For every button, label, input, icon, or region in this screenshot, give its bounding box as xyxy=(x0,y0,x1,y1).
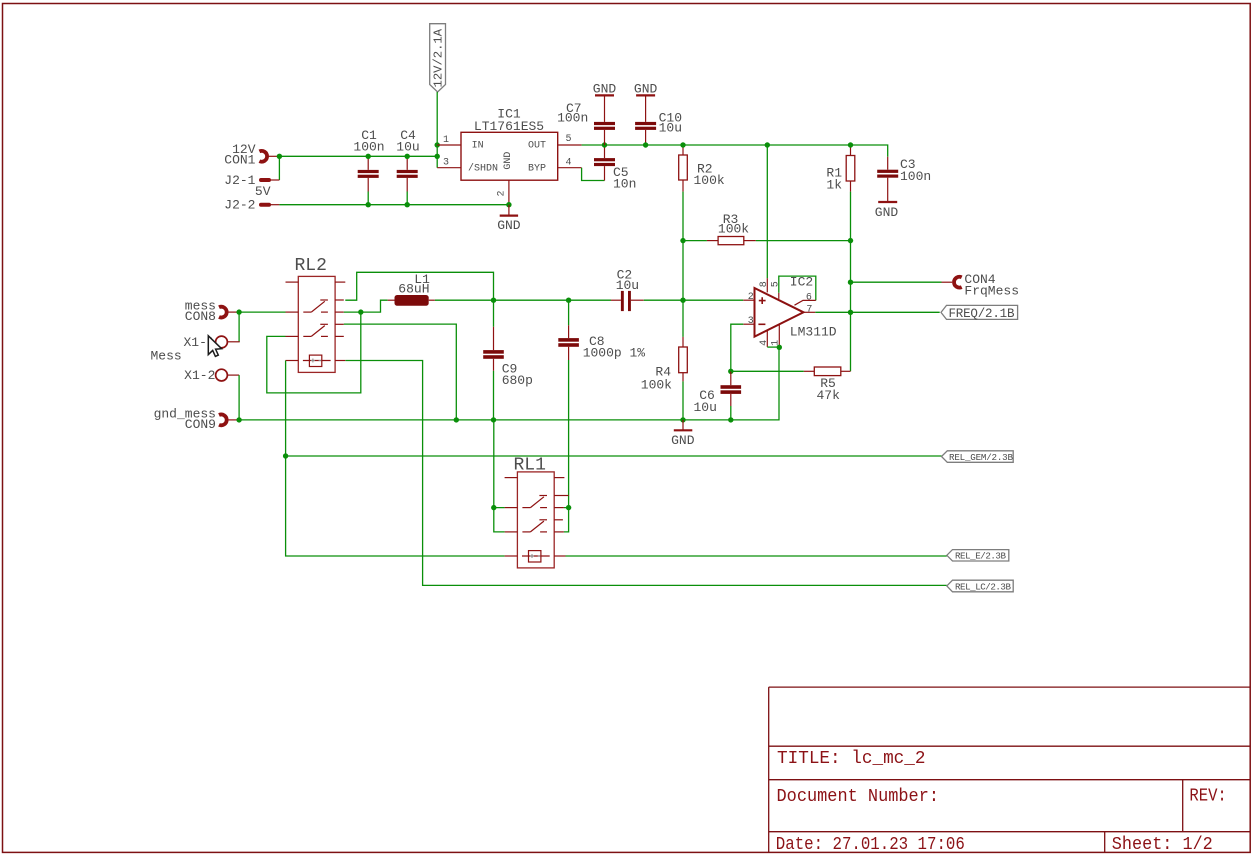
wire gnd_mess net xyxy=(239,347,779,420)
svg-text:RL2: RL2 xyxy=(295,256,327,276)
wire X1-2 down xyxy=(238,375,240,420)
flag REL_LC/2.3B xyxy=(947,580,1013,592)
svg-text:J2-2: J2-2 xyxy=(224,198,255,213)
wire signal main xyxy=(494,299,612,301)
wire R3 node down to signal xyxy=(682,241,684,301)
node CON9 xyxy=(236,417,241,422)
svg-text:5: 5 xyxy=(566,134,572,145)
node IC2 pin1 xyxy=(777,345,782,350)
svg-text:REV:: REV: xyxy=(1189,787,1226,807)
wire RL2 coil to REL_LC xyxy=(345,361,946,586)
svg-text:1000p 1%: 1000p 1% xyxy=(583,346,646,361)
wire to REL_GEM flag xyxy=(286,455,942,457)
ground C3 xyxy=(875,202,899,220)
capacitor C4 xyxy=(396,128,419,205)
svg-text:4: 4 xyxy=(566,157,572,168)
inductor L1 xyxy=(388,272,435,306)
wire to CON4 xyxy=(851,281,942,283)
svg-text:BYP: BYP xyxy=(528,163,546,174)
wire RL1 left pins xyxy=(494,420,505,508)
wire RL2 common to L1 xyxy=(344,300,388,312)
resistor R1 xyxy=(826,145,854,192)
flag FREQ/2.1B xyxy=(941,305,1018,320)
node C4 bottom xyxy=(405,202,410,207)
node 12V-CON1 xyxy=(277,154,282,159)
node C8 top xyxy=(566,298,571,303)
svg-text:4: 4 xyxy=(759,340,770,346)
node C6 bottom xyxy=(728,417,733,422)
svg-text:5V: 5V xyxy=(255,184,271,199)
wire RL1 right pins xyxy=(564,508,569,532)
wire pin4 to C5 xyxy=(582,168,605,181)
wire L1 to node xyxy=(435,299,494,301)
svg-text:3: 3 xyxy=(748,316,754,327)
node V+ branch xyxy=(765,142,770,147)
svg-text:CON8: CON8 xyxy=(185,309,216,324)
svg-text:GND: GND xyxy=(875,205,899,220)
svg-text:X1-2: X1-2 xyxy=(184,368,215,383)
wire CON8 to RL2 xyxy=(239,311,285,313)
node C1 top xyxy=(366,154,371,159)
svg-text:Document Number:: Document Number: xyxy=(777,787,940,807)
node IC1 main junction xyxy=(435,154,440,159)
node RL1 left xyxy=(491,505,496,510)
node C6 top xyxy=(728,369,733,374)
wire R1 down rail xyxy=(850,192,852,372)
svg-text:CON9: CON9 xyxy=(185,417,216,432)
svg-text:FrqMess: FrqMess xyxy=(964,284,1019,299)
pin X1-1 xyxy=(183,335,227,350)
flag REL_GEM/2.3B xyxy=(942,451,1014,463)
svg-text:10u: 10u xyxy=(396,139,419,154)
svg-text:CON1: CON1 xyxy=(224,153,255,168)
capacitor C10 xyxy=(634,82,682,145)
wire R2 to R3 node xyxy=(682,192,684,241)
svg-text:IN: IN xyxy=(472,141,484,152)
wire C2 to comparator xyxy=(644,299,744,301)
svg-text:FREQ/2.1B: FREQ/2.1B xyxy=(949,307,1015,321)
resistor R2 xyxy=(679,145,725,192)
wire RL2 no2 to gnd net xyxy=(344,324,457,420)
wire IC2 output xyxy=(815,311,939,313)
svg-text:5: 5 xyxy=(771,281,782,287)
svg-text:REL_E/2.3B: REL_E/2.3B xyxy=(955,551,1006,562)
svg-text:100n: 100n xyxy=(900,169,931,184)
node output xyxy=(848,310,853,315)
svg-text:2: 2 xyxy=(748,292,754,303)
node signal x683 xyxy=(680,298,685,303)
ground main xyxy=(671,420,695,448)
resistor R3 xyxy=(683,212,851,245)
connector CON1 xyxy=(224,142,277,168)
svg-text:10u: 10u xyxy=(659,120,682,135)
svg-text:REL_LC/2.3B: REL_LC/2.3B xyxy=(955,581,1011,592)
svg-text:3: 3 xyxy=(443,158,449,169)
wire RL2 bypass over L1 xyxy=(345,272,493,300)
node C1 bottom xyxy=(366,202,371,207)
cursor xyxy=(208,336,221,357)
node R3 right xyxy=(848,238,853,243)
capacitor C9 xyxy=(483,300,533,420)
svg-text:TITLE: lc_mc_2: TITLE: lc_mc_2 xyxy=(777,749,926,769)
connector CON9 xyxy=(154,406,237,432)
relay RL1 xyxy=(505,456,569,568)
wire OUT net xyxy=(582,145,888,157)
node gnd net x456 xyxy=(454,417,459,422)
svg-text:Sheet: 1/2: Sheet: 1/2 xyxy=(1112,835,1213,855)
svg-text:J2-1: J2-1 xyxy=(224,173,255,188)
node R4 bottom xyxy=(680,417,685,422)
node REL_GEM branch xyxy=(283,453,288,458)
flag REL_E/2.3B xyxy=(947,550,1009,562)
svg-text:100k: 100k xyxy=(718,222,749,237)
svg-text:10u: 10u xyxy=(616,278,639,293)
supply flag 12V/2.1A xyxy=(430,24,446,92)
node C10 bottom xyxy=(643,142,648,147)
wire REL_GEM net xyxy=(286,361,505,557)
wire supply flag to IC1 input xyxy=(436,92,438,168)
svg-text:47k: 47k xyxy=(817,388,841,403)
svg-text:7: 7 xyxy=(806,304,812,315)
wire RL1 coil to REL_E xyxy=(566,555,947,557)
svg-text:Mess: Mess xyxy=(151,349,182,364)
resistor R4 xyxy=(641,300,688,420)
capacitor C2 xyxy=(611,267,644,311)
node CON8 xyxy=(236,309,241,314)
capacitor C6 xyxy=(693,371,741,420)
node CON4 branch xyxy=(848,280,853,285)
node C5 top xyxy=(602,142,607,147)
capacitor C7 xyxy=(557,82,616,145)
svg-text:100n: 100n xyxy=(557,110,588,125)
node RL2 common xyxy=(358,309,363,314)
connector CON8 xyxy=(185,298,237,324)
node IC1 pin2 gnd xyxy=(506,202,511,207)
node L1 output xyxy=(491,298,496,303)
svg-text:100k: 100k xyxy=(641,378,672,393)
pin J2-1 xyxy=(224,173,279,188)
wire IC2 pin3 net xyxy=(731,324,744,371)
svg-text:1: 1 xyxy=(443,135,449,146)
wire gnd rail J2-2 xyxy=(279,204,509,206)
svg-text:12V/2.1A: 12V/2.1A xyxy=(431,28,445,87)
wire CON8 to X1-1 xyxy=(238,312,240,342)
capacitor C8 xyxy=(558,300,645,508)
svg-text:/SHDN: /SHDN xyxy=(468,162,498,174)
svg-text:8: 8 xyxy=(759,281,770,287)
node IC1 pin1 junction xyxy=(435,142,440,147)
capacitor C3 xyxy=(877,157,931,202)
wire 12V main xyxy=(279,155,437,157)
connector CON4 xyxy=(954,272,1019,298)
svg-text:IC2: IC2 xyxy=(790,274,813,289)
svg-text:10n: 10n xyxy=(613,177,636,192)
wire V+ vertical xyxy=(766,145,768,278)
node R2 top xyxy=(680,142,685,147)
svg-text:GND: GND xyxy=(671,433,695,448)
svg-text:1k: 1k xyxy=(826,177,842,192)
regulator IC1 LT1761ES5 xyxy=(437,106,581,204)
resistor R5 xyxy=(731,367,851,403)
svg-text:REL_GEM/2.3B: REL_GEM/2.3B xyxy=(949,452,1013,463)
svg-text:OUT: OUT xyxy=(528,141,546,152)
pin X1-2 xyxy=(184,368,239,383)
title block xyxy=(769,687,1250,855)
svg-text:GND: GND xyxy=(503,152,514,170)
capacitor C5 xyxy=(594,145,636,192)
node C9 bottom xyxy=(491,417,496,422)
svg-text:680p: 680p xyxy=(502,373,533,388)
node R3 left xyxy=(680,238,685,243)
svg-text:2: 2 xyxy=(497,190,508,196)
node R1 top xyxy=(848,142,853,147)
svg-text:100k: 100k xyxy=(694,173,725,188)
svg-text:LM311D: LM311D xyxy=(790,325,837,340)
wire CON1 to J2-1 xyxy=(278,156,280,180)
relay RL2 xyxy=(286,256,346,373)
svg-text:GND: GND xyxy=(497,218,521,233)
capacitor C1 xyxy=(353,128,384,205)
svg-text:10u: 10u xyxy=(693,400,716,415)
svg-text:6: 6 xyxy=(806,292,812,303)
svg-text:100n: 100n xyxy=(353,139,384,154)
svg-text:LT1761ES5: LT1761ES5 xyxy=(474,119,544,134)
comparator IC2 LM311D xyxy=(743,274,837,347)
svg-text:68uH: 68uH xyxy=(398,282,429,297)
ground IC1 xyxy=(497,205,521,233)
node C4 top xyxy=(405,154,410,159)
node RL1 right xyxy=(566,505,571,510)
wire RL2 loop to switch2 xyxy=(267,312,361,393)
pin J2-2 xyxy=(224,198,279,213)
svg-text:Date: 27.01.23 17:06: Date: 27.01.23 17:06 xyxy=(776,835,965,855)
